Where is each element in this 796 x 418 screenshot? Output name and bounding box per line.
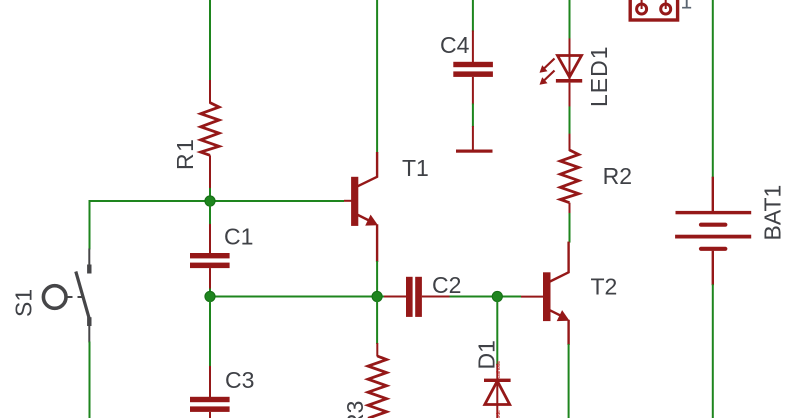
wire node B down to C3 [209,297,211,368]
wire C1 bottom to node B [209,289,211,297]
wire top to T1 collector [376,0,378,153]
wire left drop to switch [89,200,91,250]
resistor R2 [560,134,578,214]
junction node A [205,196,215,206]
wire BAT1 to bottom [712,284,714,418]
wire C4 to ground [472,104,474,128]
svg-text:T2: T2 [591,274,618,300]
wire node A horizontal to T1 base [90,200,345,202]
svg-text:C2: C2 [432,272,461,298]
switch S1 [43,249,89,343]
wire top to C4 [472,0,474,32]
capacitor C1 [190,224,230,290]
wire node B horizontal to C2 [210,296,385,298]
connector J1 [630,0,677,20]
transistor T1 [344,152,378,262]
svg-text:1: 1 [681,0,693,14]
svg-text:C3: C3 [225,367,254,393]
svg-text:BAT1: BAT1 [760,185,786,241]
svg-text:R2: R2 [603,163,632,189]
svg-text:LED1: LED1 [586,45,612,107]
wire top to BAT1 [712,0,714,178]
wire top to LED1 [569,0,571,39]
capacitor C4 [453,31,493,105]
ground [456,126,493,153]
svg-text:T1: T1 [402,155,429,181]
transistor T2 [521,242,570,345]
wire LED1 to R2 [569,106,571,134]
wire node D down to D1 [496,297,498,366]
svg-text:C1: C1 [224,224,253,250]
junction node D [492,291,502,301]
wire node C down to R3 [376,297,378,345]
wire switch bottom to bottom edge [89,342,91,418]
wire T1 emitter to node C [376,261,378,297]
svg-text:anode: anode [496,410,502,418]
svg-text:S1: S1 [11,289,37,317]
svg-text:R1: R1 [172,138,198,170]
resistor R3 [368,343,387,418]
wire R2 to T2 collector [569,213,571,243]
LED LED1 [540,38,583,107]
wire node A down to C1 [209,201,211,225]
svg-text:cathode: cathode [496,360,502,378]
wire net V+ to R1 top [209,0,211,81]
wire T2 emitter to bottom [568,344,570,418]
capacitor C3 [190,366,230,418]
battery BAT1 [675,177,751,286]
resistor R1 [201,80,219,189]
diode D1 [484,364,511,418]
svg-text:C4: C4 [440,32,470,58]
wire C2 to node D [450,296,522,298]
junction node C [372,291,382,301]
junction node B [205,291,215,301]
capacitor C2 [384,277,451,317]
svg-text:R3: R3 [342,401,368,418]
wire R1 bottom to node A [209,188,211,201]
